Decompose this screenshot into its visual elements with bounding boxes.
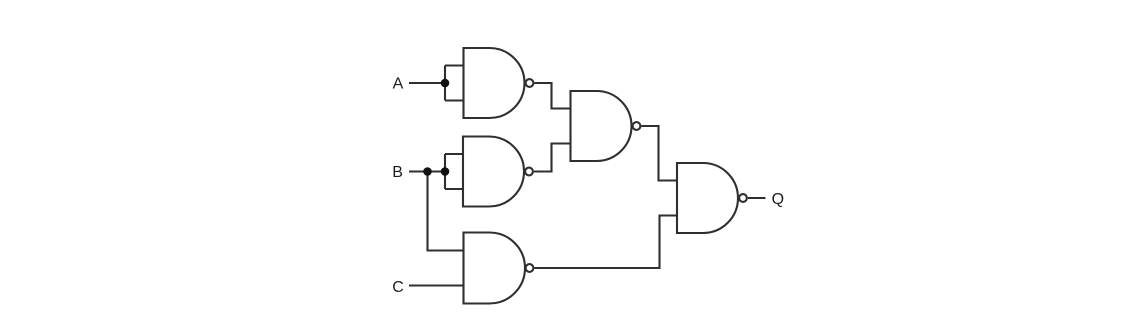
svg-text:B: B	[392, 164, 403, 181]
svg-text:C: C	[392, 279, 404, 296]
svg-text:Q: Q	[772, 191, 784, 208]
svg-text:A: A	[393, 76, 404, 93]
